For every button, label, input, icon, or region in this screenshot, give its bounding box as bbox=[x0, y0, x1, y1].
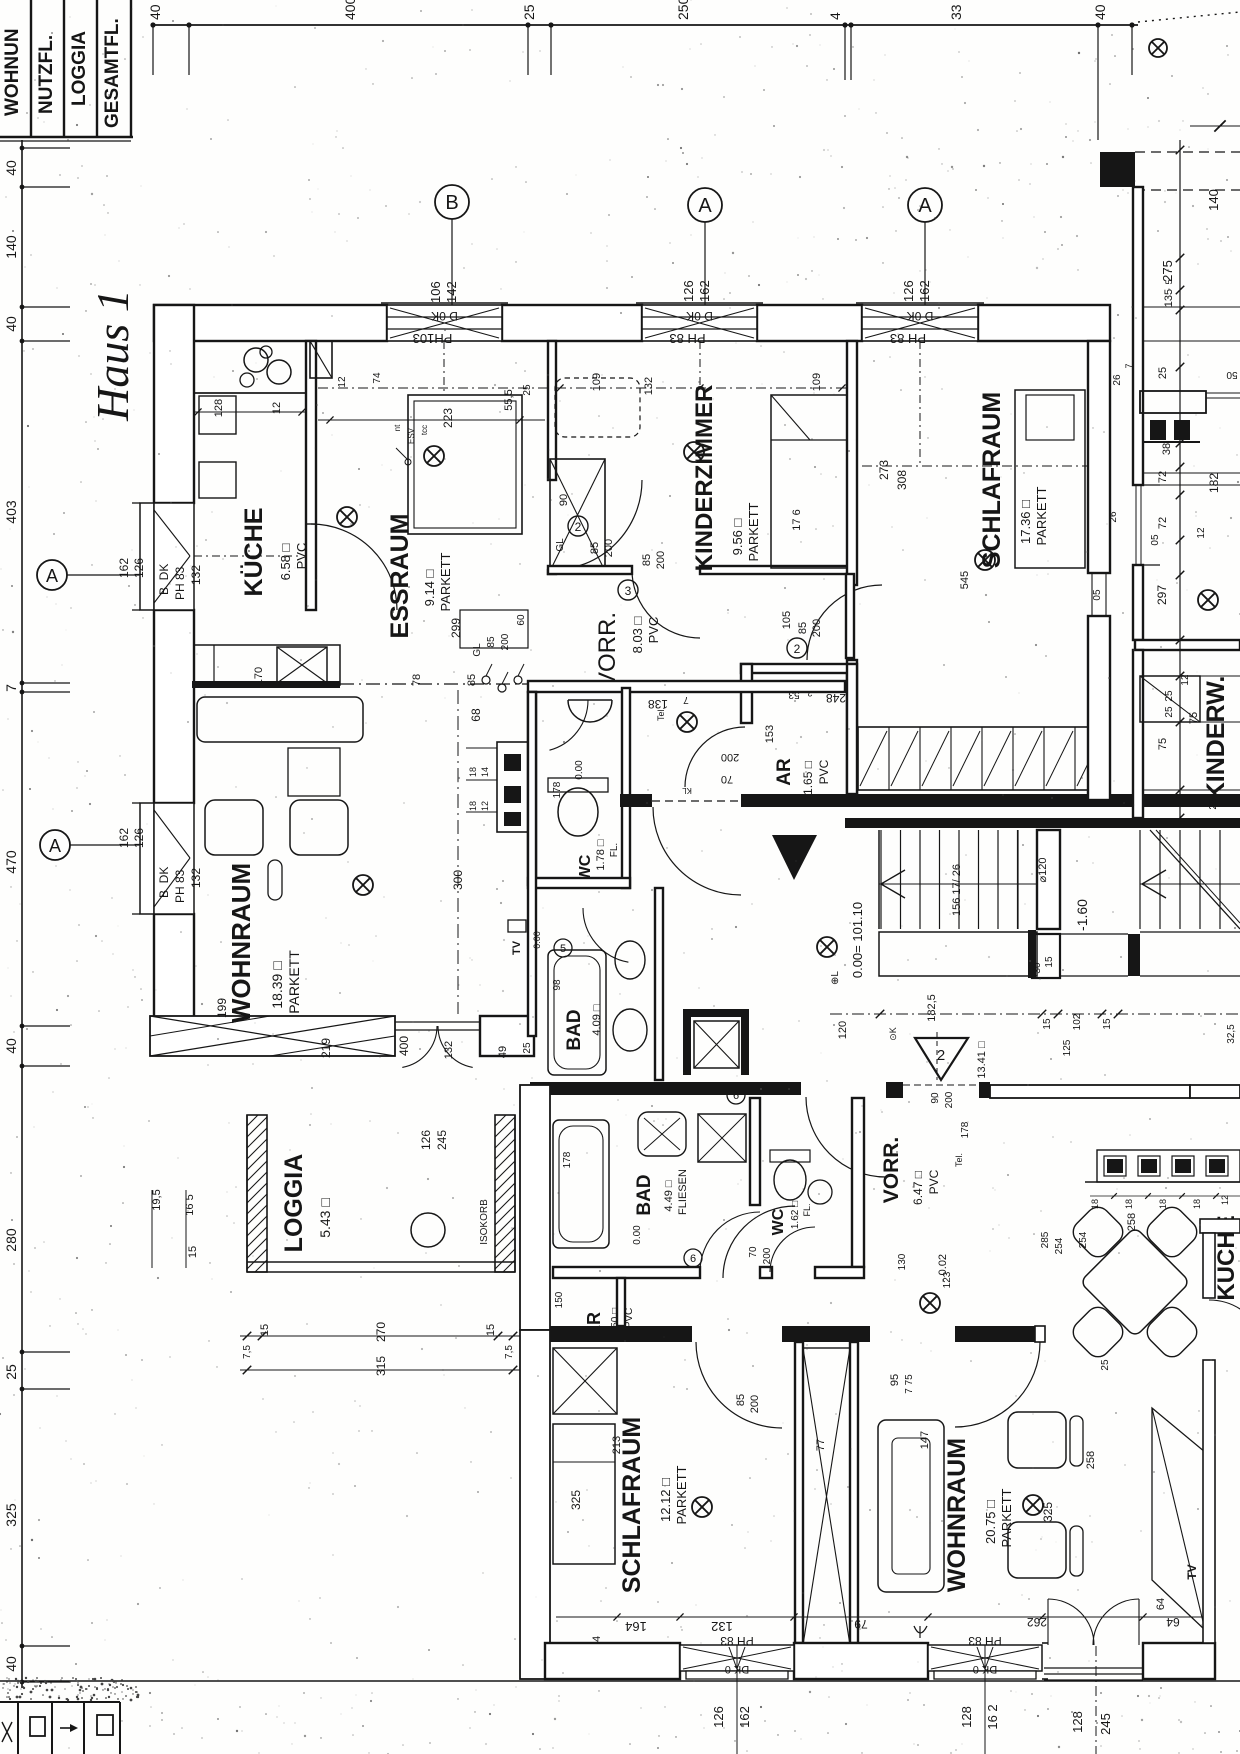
svg-text:18: 18 bbox=[1124, 1199, 1134, 1209]
svg-text:85: 85 bbox=[735, 1394, 747, 1406]
svg-text:325: 325 bbox=[569, 1490, 583, 1510]
svg-text:98: 98 bbox=[552, 979, 563, 991]
svg-text:250: 250 bbox=[675, 0, 691, 20]
stair landing slab bbox=[879, 932, 1037, 976]
bad2 door arc bbox=[700, 1212, 760, 1272]
svg-text:15: 15 bbox=[1044, 956, 1055, 968]
svg-text:64: 64 bbox=[1166, 1615, 1180, 1629]
svg-text:25: 25 bbox=[1157, 367, 1169, 379]
svg-text:182: 182 bbox=[1207, 473, 1221, 493]
svg-text:6: 6 bbox=[733, 1090, 739, 1102]
svg-text:SCHLAFRAUM: SCHLAFRAUM bbox=[978, 392, 1006, 568]
svg-text:7: 7 bbox=[3, 684, 19, 692]
entrance window marks bbox=[1143, 484, 1160, 486]
svg-text:178: 178 bbox=[960, 1121, 971, 1138]
svg-text:213: 213 bbox=[611, 1436, 623, 1454]
terrace door bbox=[395, 1021, 480, 1023]
svg-text:33: 33 bbox=[948, 4, 964, 20]
wc room apt1 bbox=[528, 692, 536, 885]
svg-text:78: 78 bbox=[411, 674, 423, 686]
svg-text:25: 25 bbox=[1164, 690, 1175, 702]
svg-text:25: 25 bbox=[522, 1042, 533, 1054]
svg-text:18.39 □: 18.39 □ bbox=[269, 961, 285, 1009]
black bar landing bbox=[1128, 934, 1140, 976]
svg-text:40: 40 bbox=[3, 1038, 19, 1054]
loggia dim chain bbox=[240, 1335, 520, 1337]
svg-text:85: 85 bbox=[486, 636, 497, 648]
wohnraum1 wall right bbox=[528, 692, 536, 1036]
wohnraum1 armchair 1 bbox=[205, 800, 263, 855]
wohnraum2 armchair1 bbox=[1008, 1412, 1066, 1468]
window bottom PH 83 bbox=[928, 1645, 1042, 1671]
svg-text:132: 132 bbox=[643, 377, 655, 395]
window A center line and labels bbox=[736, 1645, 738, 1754]
schlafraum2 lamp bbox=[692, 1497, 712, 1517]
apt2 kueche right wall bbox=[1203, 1233, 1215, 1298]
svg-text:25: 25 bbox=[522, 384, 533, 396]
wohnraum2 couch bbox=[878, 1420, 944, 1592]
svg-text:49: 49 bbox=[497, 1046, 509, 1058]
AR2 room bbox=[617, 1278, 625, 1326]
window top PH 83 bbox=[862, 305, 978, 341]
wohnraum1 lamp bbox=[353, 875, 373, 895]
kinderzimmer lamp bbox=[684, 442, 704, 462]
svg-text:BAD: BAD bbox=[634, 1174, 655, 1215]
svg-text:153: 153 bbox=[764, 725, 776, 743]
svg-text:WOHNRAUM: WOHNRAUM bbox=[943, 1438, 971, 1592]
svg-text:200: 200 bbox=[944, 1091, 955, 1108]
wohnraum2 door arc bbox=[955, 1342, 1040, 1427]
svg-text:WOHNUN: WOHNUN bbox=[2, 28, 23, 116]
svg-text:74: 74 bbox=[372, 372, 383, 384]
svg-text:PH 83: PH 83 bbox=[173, 566, 187, 600]
svg-text:4.09 □: 4.09 □ bbox=[591, 1004, 603, 1035]
apt3 dim row bbox=[1090, 1195, 1240, 1197]
svg-text:⊕L: ⊕L bbox=[830, 971, 841, 985]
svg-text:156 17/ 26: 156 17/ 26 bbox=[951, 864, 963, 916]
dining table diamond bbox=[1080, 1227, 1190, 1337]
svg-text:tcc: tcc bbox=[420, 425, 429, 435]
svg-text:30: 30 bbox=[1032, 962, 1043, 974]
svg-text:128: 128 bbox=[959, 1706, 974, 1728]
stair triangle 2 bbox=[915, 1038, 968, 1080]
door label 2 bbox=[568, 516, 588, 536]
svg-text:05: 05 bbox=[1150, 534, 1161, 546]
svg-text:26: 26 bbox=[1112, 374, 1123, 386]
svg-text:90: 90 bbox=[558, 494, 570, 506]
svg-text:nt: nt bbox=[393, 424, 402, 431]
svg-text:9.14 □: 9.14 □ bbox=[422, 569, 437, 606]
svg-text:15: 15 bbox=[187, 1246, 199, 1258]
svg-text:19,5: 19,5 bbox=[151, 1189, 163, 1210]
svg-text:PH 83: PH 83 bbox=[890, 331, 926, 346]
H2 extension over kitchen bbox=[1190, 1085, 1240, 1098]
kueche door arc bbox=[1209, 1300, 1240, 1348]
section marker A top 1 bbox=[688, 188, 722, 222]
stair arrow left bbox=[881, 870, 905, 898]
svg-text:182,5: 182,5 bbox=[926, 994, 938, 1022]
svg-text:285: 285 bbox=[1040, 1231, 1051, 1248]
svg-text:85: 85 bbox=[466, 674, 478, 686]
dining chairs bbox=[1068, 1202, 1127, 1261]
svg-text:130: 130 bbox=[897, 1253, 908, 1270]
svg-text:15: 15 bbox=[1102, 1018, 1113, 1030]
svg-text:40: 40 bbox=[3, 1656, 19, 1672]
left dimension chain outer bbox=[21, 140, 23, 1688]
svg-text:18: 18 bbox=[1158, 1199, 1168, 1209]
svg-text:B: B bbox=[445, 192, 458, 214]
kinderzimmer bed bbox=[771, 395, 849, 568]
svg-text:18: 18 bbox=[468, 801, 478, 811]
svg-text:KÜCHE: KÜCHE bbox=[239, 508, 268, 597]
table top-left corner (WOHNUNG/NUTZFL/LOGGIA/GESAMTFL) bbox=[30, 0, 32, 137]
svg-text:162: 162 bbox=[737, 1706, 752, 1728]
kinderw door hatch bbox=[1140, 676, 1200, 722]
svg-text:AR: AR bbox=[774, 758, 795, 786]
svg-text:12.12 □: 12.12 □ bbox=[658, 1478, 673, 1522]
svg-text:275: 275 bbox=[1160, 260, 1175, 282]
svg-text:85: 85 bbox=[797, 622, 809, 634]
stair rail diagonal bbox=[1150, 830, 1240, 929]
svg-text:126: 126 bbox=[681, 280, 696, 302]
svg-text:126: 126 bbox=[711, 1706, 726, 1728]
vent symbol between windows bbox=[914, 1626, 927, 1633]
svg-text:12: 12 bbox=[1196, 527, 1207, 539]
schlafraum1 wardrobe hatched bbox=[858, 727, 1105, 790]
svg-text:NUTZFL.: NUTZFL. bbox=[36, 35, 57, 114]
AR right wall bbox=[847, 664, 857, 794]
window centre lines into rooms bbox=[443, 341, 445, 392]
kinderw top wall bbox=[1135, 640, 1240, 650]
kinderw lamp bbox=[1198, 590, 1218, 610]
circled number 5 bbox=[554, 939, 572, 957]
svg-text:40: 40 bbox=[1092, 4, 1108, 20]
svg-text:Tel.: Tel. bbox=[656, 707, 666, 721]
svg-text:40: 40 bbox=[147, 4, 163, 20]
svg-text:32,5: 32,5 bbox=[1226, 1024, 1237, 1044]
kitchen cupboard left 2 bbox=[199, 462, 236, 498]
svg-text:68: 68 bbox=[469, 708, 483, 722]
svg-text:90: 90 bbox=[930, 1092, 941, 1104]
pill 258 1 bbox=[1070, 1416, 1083, 1466]
svg-text:64: 64 bbox=[1155, 1598, 1167, 1610]
svg-text:WC: WC bbox=[770, 1208, 787, 1235]
svg-text:50: 50 bbox=[1226, 369, 1238, 380]
essraum/wohnraum dashed boundary bbox=[340, 683, 530, 685]
window top PH 83 bbox=[642, 305, 757, 341]
shaft box with X bbox=[550, 459, 605, 571]
svg-text:FL.: FL. bbox=[802, 1203, 812, 1216]
svg-text:7,5: 7,5 bbox=[242, 1345, 253, 1359]
washing machine niche bbox=[683, 1009, 749, 1017]
svg-text:262: 262 bbox=[1027, 1615, 1047, 1629]
svg-text:14: 14 bbox=[480, 767, 490, 777]
stairs block bbox=[878, 830, 880, 929]
svg-text:142: 142 bbox=[444, 281, 459, 303]
wall essraum/kinderzimmer bbox=[548, 341, 556, 480]
svg-text:128: 128 bbox=[213, 399, 225, 417]
bell panel bbox=[1140, 391, 1206, 413]
svg-text:254: 254 bbox=[1078, 1231, 1089, 1248]
svg-text:PVC: PVC bbox=[294, 543, 309, 570]
svg-text:B DK: B DK bbox=[157, 867, 171, 898]
apt2 kitchen counter edge bbox=[1085, 1181, 1240, 1183]
svg-text:5: 5 bbox=[560, 943, 566, 955]
wohnraum1 table bbox=[288, 748, 340, 796]
wall kinderzimmer bottom bbox=[548, 566, 632, 574]
svg-text:15: 15 bbox=[1042, 1018, 1053, 1030]
svg-text:PVC: PVC bbox=[624, 1308, 635, 1329]
bad2 basin bbox=[638, 1112, 686, 1156]
apt3 kitchen counter hatched squares bbox=[1097, 1150, 1240, 1182]
stair right flight bbox=[1139, 830, 1141, 929]
apt2 bad walls bbox=[750, 1098, 760, 1205]
svg-text:7,5: 7,5 bbox=[504, 1345, 515, 1359]
svg-text:545: 545 bbox=[959, 571, 971, 589]
hall dim dash line bbox=[830, 1013, 1240, 1015]
svg-text:17.36 □: 17.36 □ bbox=[1018, 500, 1033, 544]
svg-text:106: 106 bbox=[428, 281, 443, 303]
apt2 left outer wall bbox=[520, 1085, 550, 1330]
top right lamp bbox=[1149, 39, 1167, 57]
wc1 door arc bbox=[550, 700, 589, 750]
essraum bench bbox=[460, 610, 528, 648]
kitchen cupboard left 1 bbox=[199, 396, 236, 434]
schlafraum2 door arc bbox=[696, 1342, 782, 1428]
essraum lamp bbox=[424, 446, 444, 466]
svg-text:1.78 □: 1.78 □ bbox=[595, 839, 607, 870]
landing slab middle edges bbox=[1060, 933, 1128, 935]
kitchen sink circles bbox=[244, 348, 268, 372]
kinderzimmer dim line bbox=[556, 387, 846, 389]
kitchen niche bottom wall bbox=[1200, 1219, 1240, 1233]
svg-text:4: 4 bbox=[827, 12, 843, 20]
bad2 tub bbox=[553, 1120, 609, 1248]
svg-text:164: 164 bbox=[625, 1619, 647, 1634]
svg-text:PVC: PVC bbox=[817, 759, 831, 784]
svg-text:B DK: B DK bbox=[157, 564, 171, 595]
svg-text:400: 400 bbox=[342, 0, 358, 20]
svg-text:18: 18 bbox=[468, 767, 478, 777]
top dimension chain bbox=[152, 24, 1138, 26]
svg-text:135: 135 bbox=[1163, 289, 1175, 307]
svg-text:470: 470 bbox=[3, 850, 19, 874]
svg-text:254: 254 bbox=[1054, 1237, 1065, 1254]
svg-text:200: 200 bbox=[721, 751, 739, 763]
svg-text:2: 2 bbox=[937, 1047, 945, 1064]
svg-text:12: 12 bbox=[1220, 1195, 1230, 1205]
wohnraum1 vertical dash line bbox=[457, 690, 459, 1014]
svg-text:308: 308 bbox=[895, 470, 909, 490]
svg-text:7 75: 7 75 bbox=[904, 1374, 915, 1394]
svg-text:12: 12 bbox=[480, 801, 490, 811]
svg-text:20.75 □: 20.75 □ bbox=[983, 1500, 998, 1544]
window bottom PH 83 bbox=[680, 1645, 794, 1671]
svg-text:0.00: 0.00 bbox=[632, 1225, 643, 1245]
svg-text:25: 25 bbox=[3, 1364, 19, 1380]
svg-text:7: 7 bbox=[683, 694, 689, 705]
svg-text:BAD: BAD bbox=[564, 1009, 585, 1050]
heavy wall stairhall top bbox=[845, 818, 1240, 828]
section marker A left 2 bbox=[40, 830, 70, 860]
kitchen dim row bbox=[194, 411, 306, 413]
svg-text:13.41 □: 13.41 □ bbox=[976, 1041, 988, 1079]
svg-text:140: 140 bbox=[1206, 189, 1221, 211]
loggia left wall hatched bbox=[90, 1115, 423, 1272]
svg-text:162: 162 bbox=[117, 558, 131, 578]
svg-text:⊙K: ⊙K bbox=[888, 1027, 898, 1041]
balcony door center line and labels bbox=[1095, 1646, 1097, 1754]
bad1 basin bbox=[613, 1009, 647, 1051]
svg-text:1.65 □: 1.65 □ bbox=[801, 761, 815, 795]
svg-text:126: 126 bbox=[132, 558, 146, 578]
wohnraum2 lamp bbox=[1023, 1495, 1043, 1515]
svg-text:60: 60 bbox=[516, 614, 527, 626]
schlafraum1 bed bbox=[1015, 390, 1085, 568]
pillar black top right bbox=[1100, 152, 1135, 187]
section marker A top 2 bbox=[908, 188, 942, 222]
legend box bottom left bbox=[0, 1701, 120, 1703]
kitchen lower counter bbox=[194, 645, 340, 685]
svg-text:25: 25 bbox=[1100, 1359, 1111, 1371]
apt2 entry door arc bbox=[806, 1097, 886, 1177]
canopy dashed lines bbox=[1135, 151, 1240, 153]
svg-text:GESAMTFL.: GESAMTFL. bbox=[102, 18, 123, 128]
svg-text:85: 85 bbox=[641, 554, 653, 566]
svg-text:70: 70 bbox=[721, 773, 733, 785]
svg-text:PH 83: PH 83 bbox=[173, 869, 187, 903]
entry triangle marker apt1 bbox=[772, 835, 817, 880]
wall wc/bad bbox=[528, 878, 630, 888]
schlafraum2 bed bbox=[553, 1424, 615, 1564]
svg-text:17 6: 17 6 bbox=[791, 509, 803, 530]
window top PH103 bbox=[387, 305, 502, 341]
wall schlafraum right/vorr AR bbox=[846, 574, 854, 658]
svg-text:VORR.: VORR. bbox=[880, 1137, 903, 1204]
wohnraum1 pill bbox=[268, 860, 282, 900]
wc1 basin bbox=[568, 700, 612, 722]
wardrobe strip between rooms bbox=[795, 1342, 803, 1643]
svg-text:72: 72 bbox=[1157, 517, 1169, 529]
svg-text:120: 120 bbox=[837, 1021, 849, 1039]
svg-text:PH103: PH103 bbox=[413, 331, 453, 346]
tv wall trapezoid bbox=[1152, 1408, 1205, 1630]
svg-text:299: 299 bbox=[449, 618, 463, 638]
svg-text:18: 18 bbox=[1192, 1199, 1202, 1209]
svg-text:PARKETT: PARKETT bbox=[746, 502, 761, 561]
kitchen counter top bbox=[194, 341, 306, 393]
kitchen flue box bbox=[310, 341, 332, 378]
svg-text:A: A bbox=[49, 836, 61, 856]
svg-text:297: 297 bbox=[1155, 585, 1169, 605]
svg-text:KL: KL bbox=[682, 786, 692, 795]
svg-text:LOGGIA: LOGGIA bbox=[69, 31, 90, 106]
svg-text:8.03 □: 8.03 □ bbox=[630, 616, 645, 653]
bad1 tub bbox=[548, 950, 606, 1075]
svg-text:15: 15 bbox=[485, 1324, 497, 1336]
bad room apt1 bbox=[655, 888, 663, 1080]
section marker B top bbox=[435, 185, 469, 219]
svg-text:6.47 □: 6.47 □ bbox=[911, 1171, 925, 1205]
svg-text:123: 123 bbox=[942, 1271, 953, 1288]
kitchen lamp bbox=[337, 507, 357, 527]
vorr1 lamp bbox=[677, 712, 697, 732]
apartment1 right outer wall bbox=[1088, 341, 1110, 573]
wohnraum1 armchair 2 bbox=[290, 800, 348, 855]
svg-text:D 0K: D 0K bbox=[431, 309, 458, 323]
svg-text:109: 109 bbox=[811, 373, 823, 391]
svg-text:PARKETT: PARKETT bbox=[438, 552, 453, 611]
entry door apt1 dashes bbox=[652, 800, 741, 802]
wohnraum2 armchair2 bbox=[1008, 1522, 1066, 1578]
svg-text:40: 40 bbox=[3, 316, 19, 332]
svg-text:125: 125 bbox=[1062, 1039, 1073, 1056]
svg-text:15: 15 bbox=[259, 1324, 271, 1336]
svg-text:9.56 □: 9.56 □ bbox=[730, 518, 745, 555]
svg-text:258: 258 bbox=[1085, 1451, 1097, 1469]
AR door arc bbox=[685, 727, 745, 787]
kinderw left wall bbox=[1133, 650, 1143, 818]
svg-text:273: 273 bbox=[877, 460, 891, 480]
svg-text:147: 147 bbox=[919, 1431, 931, 1449]
svg-text:109: 109 bbox=[591, 373, 603, 391]
door essraum-vorr arc bbox=[552, 480, 642, 570]
svg-text:0.00: 0.00 bbox=[574, 760, 585, 780]
svg-text:199: 199 bbox=[215, 998, 229, 1018]
bad1 toilet bbox=[615, 941, 645, 979]
speckle band bbox=[44, 1680, 46, 1682]
svg-text:5.43 □: 5.43 □ bbox=[317, 1198, 333, 1238]
svg-text:⌀120: ⌀120 bbox=[1037, 858, 1049, 883]
apt1 entry door arc into hall bbox=[653, 807, 741, 895]
loggia slab bottom bbox=[247, 1261, 515, 1263]
svg-text:0.00: 0.00 bbox=[532, 931, 542, 949]
duct box stairs bbox=[1032, 934, 1060, 978]
schlafraum2 wardrobe X bbox=[553, 1348, 617, 1414]
svg-text:70: 70 bbox=[748, 1246, 759, 1258]
svg-text:38: 38 bbox=[1161, 443, 1173, 455]
svg-text:102: 102 bbox=[1072, 1013, 1083, 1030]
svg-text:245: 245 bbox=[1098, 1713, 1113, 1735]
kitchen pass symbols bbox=[482, 676, 490, 684]
room AR apt1 bbox=[741, 664, 752, 723]
svg-text:72: 72 bbox=[1157, 471, 1169, 483]
svg-text:PARKETT: PARKETT bbox=[1034, 486, 1049, 545]
stairhall lamp bbox=[817, 937, 837, 957]
svg-text:132: 132 bbox=[189, 868, 203, 888]
window left wall (WOHNRAUM) lower bbox=[140, 803, 154, 914]
schlafraum1 lamp bbox=[975, 550, 995, 570]
svg-text:162: 162 bbox=[697, 280, 712, 302]
svg-text:178: 178 bbox=[552, 781, 563, 798]
svg-text:162: 162 bbox=[917, 280, 932, 302]
svg-text:FLIESEN: FLIESEN bbox=[677, 1169, 689, 1215]
svg-text:-1.60: -1.60 bbox=[1074, 899, 1090, 931]
margin speckle extra bbox=[67, 995, 69, 997]
svg-text:WOHNRAUM: WOHNRAUM bbox=[226, 863, 256, 1023]
svg-text:TV: TV bbox=[511, 940, 523, 955]
section marker A left 1 bbox=[37, 560, 67, 590]
svg-text:ISOKORB: ISOKORB bbox=[479, 1199, 490, 1245]
svg-text:KINDERW.: KINDERW. bbox=[1202, 676, 1230, 801]
right dim chain bbox=[1179, 140, 1181, 818]
svg-text:PARKETT: PARKETT bbox=[999, 1488, 1014, 1547]
svg-text:85: 85 bbox=[589, 542, 601, 554]
wohnraum1 sideboard bbox=[197, 697, 363, 742]
svg-text:200: 200 bbox=[655, 551, 667, 569]
heavy wall between apartments bbox=[530, 1082, 801, 1095]
svg-text:95: 95 bbox=[889, 1374, 901, 1386]
